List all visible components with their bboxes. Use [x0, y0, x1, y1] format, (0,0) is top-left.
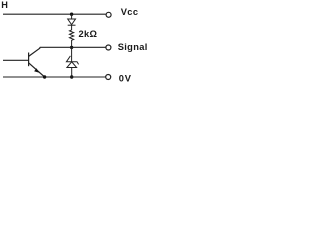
terminal Vcc [106, 12, 111, 17]
wire base input [3, 59, 29, 61]
junction zener to 0V rail [70, 75, 73, 78]
terminal 0V [106, 75, 111, 80]
diode D1 [68, 14, 76, 30]
junction on signal line [70, 46, 73, 49]
wire signal line [40, 46, 106, 48]
svg-text:H: H [1, 0, 8, 10]
wire 0V rail [3, 76, 106, 78]
svg-text:0V: 0V [119, 73, 132, 83]
wire top rail [3, 13, 106, 15]
svg-text:Vcc: Vcc [121, 7, 139, 17]
svg-text:2kΩ: 2kΩ [79, 29, 98, 39]
zener diode D2 [66, 47, 78, 77]
resistor R1 zigzag [70, 30, 74, 47]
transistor Q1 [29, 47, 45, 77]
terminal Signal [106, 45, 111, 50]
junction emitter to 0V rail [43, 75, 46, 78]
svg-text:Signal: Signal [118, 42, 148, 52]
junction on top rail [70, 13, 73, 16]
